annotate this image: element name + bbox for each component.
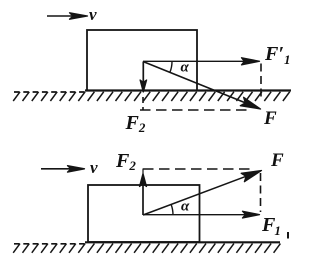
svg-text:F1: F1: [261, 214, 281, 238]
svg-text:v: v: [89, 5, 97, 24]
force F1 arrow (bottom): [143, 211, 260, 218]
svg-text:F: F: [263, 108, 277, 129]
force F arrow (top): [143, 62, 261, 110]
svg-text:F′1: F′1: [264, 43, 290, 67]
force F arrow (bottom): [143, 171, 262, 216]
ground broken line left (top): [14, 91, 85, 93]
velocity arrow v (top): [47, 13, 88, 19]
ground hatching (top): [13, 92, 290, 101]
force F'1 arrow (top): [143, 58, 260, 65]
block (top): [87, 30, 197, 91]
ground broken line left (bottom): [14, 243, 85, 245]
dashed line bottom (top): [140, 109, 252, 111]
svg-text:α: α: [181, 60, 190, 76]
stray tick mark (bottom right): [287, 232, 289, 239]
dashed line left stub (top): [142, 97, 144, 110]
dashed line vertical right (bottom diagram): [260, 173, 262, 212]
svg-text:F: F: [270, 150, 284, 171]
svg-text:F2: F2: [125, 112, 146, 135]
block (bottom): [88, 185, 200, 242]
svg-text:v: v: [90, 158, 98, 177]
velocity arrow v (bottom): [41, 166, 85, 173]
svg-text:F2: F2: [115, 150, 136, 173]
angle arc alpha (bottom): [171, 204, 173, 215]
svg-text:α: α: [181, 199, 190, 215]
ground line (top): [85, 89, 291, 91]
force F2 arrow (bottom): [140, 169, 147, 216]
dashed line top (bottom diagram): [143, 168, 250, 170]
ground line (bottom): [85, 241, 280, 243]
dashed line vertical right (top): [260, 64, 262, 102]
force F2 arrow (top): [140, 62, 147, 93]
angle arc alpha (top): [170, 62, 172, 73]
ground hatching (bottom): [13, 244, 280, 253]
